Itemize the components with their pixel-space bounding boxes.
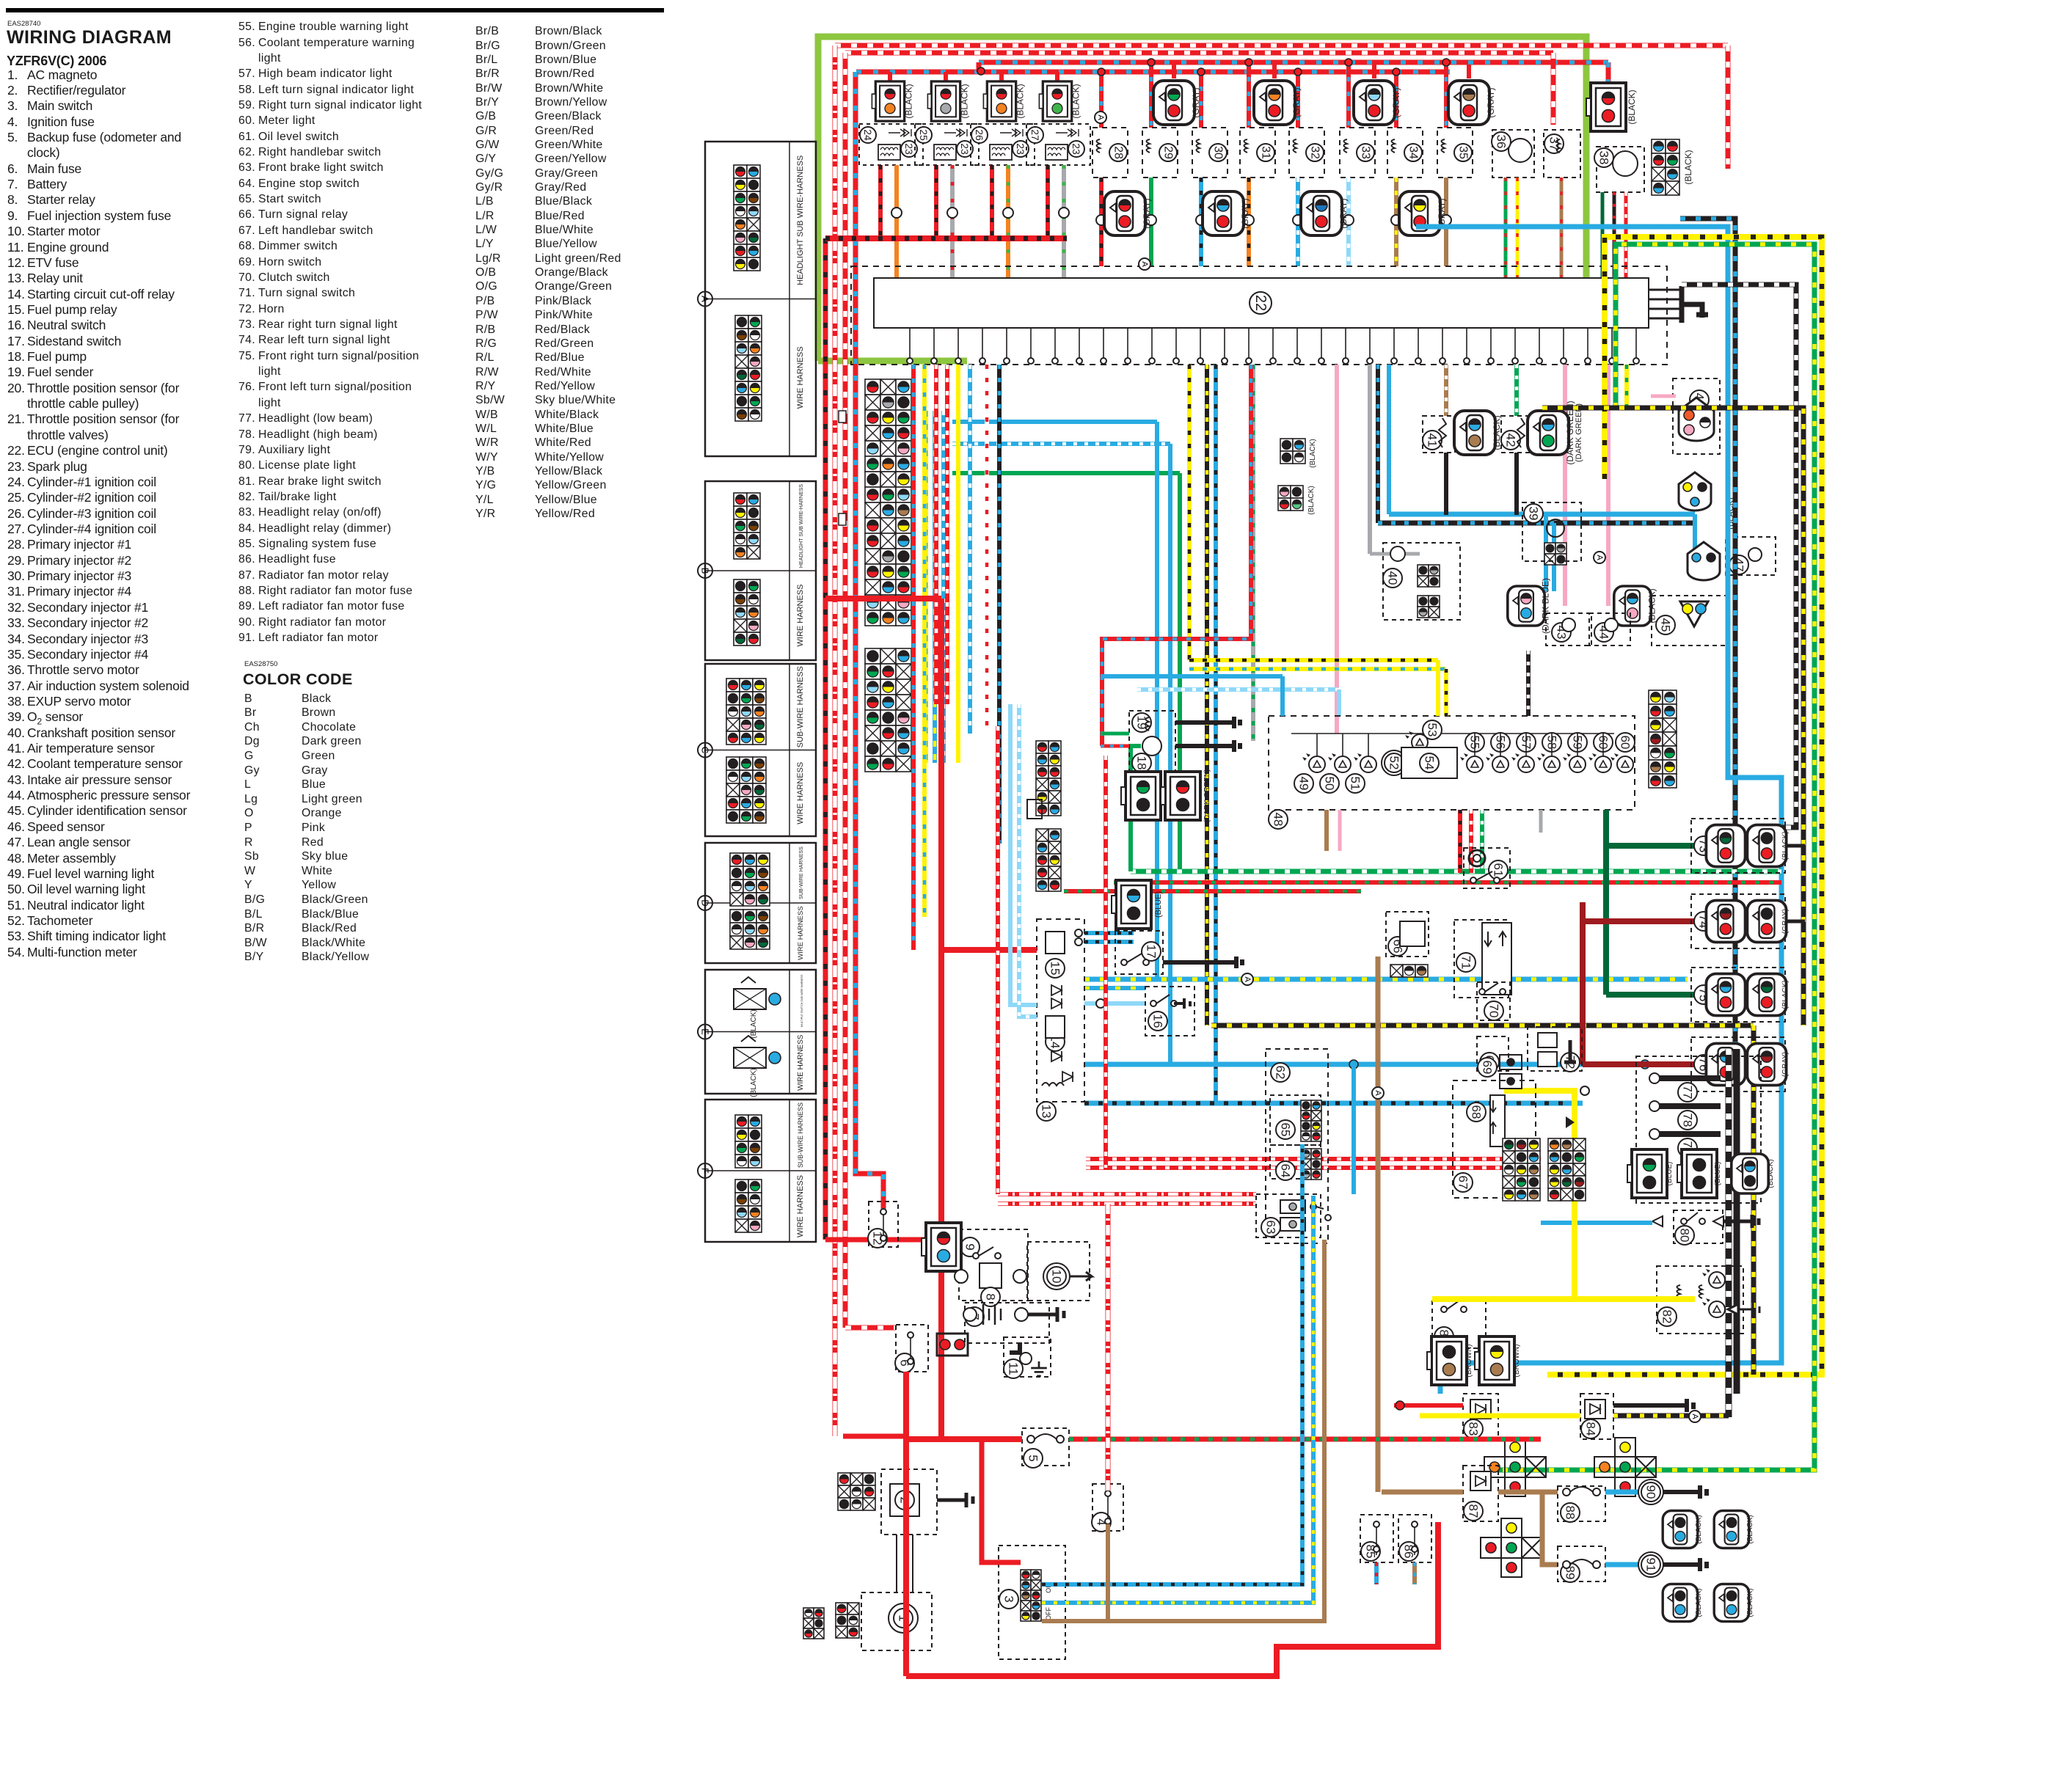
svg-text:(BLUE): (BLUE) — [1666, 1162, 1674, 1186]
svg-text:42: 42 — [1504, 434, 1518, 447]
svg-text:(BROWN): (BROWN) — [1465, 1345, 1473, 1378]
svg-text:(GRAY): (GRAY) — [1191, 87, 1201, 117]
svg-text:11: 11 — [1007, 1362, 1021, 1375]
svg-text:25: 25 — [918, 129, 930, 141]
svg-text:54: 54 — [1423, 756, 1437, 770]
svg-text:A: A — [700, 296, 711, 302]
svg-text:WIRE HARNESS: WIRE HARNESS — [797, 906, 805, 959]
svg-text:(GRAY): (GRAY) — [1486, 87, 1496, 117]
svg-text:23: 23 — [1015, 143, 1026, 155]
svg-text:68: 68 — [1470, 1105, 1484, 1119]
svg-text:8: 8 — [984, 1293, 998, 1300]
svg-text:(DARK GREEN): (DARK GREEN) — [1575, 403, 1583, 462]
svg-text:53: 53 — [1426, 723, 1440, 737]
svg-text:(BLACK): (BLACK) — [1307, 486, 1316, 514]
svg-text:16: 16 — [1151, 1014, 1165, 1028]
svg-text:84: 84 — [1584, 1422, 1598, 1436]
svg-text:(BLACK): (BLACK) — [904, 84, 914, 118]
svg-text:A: A — [1096, 114, 1105, 120]
svg-text:23: 23 — [959, 143, 971, 155]
svg-text:17: 17 — [1145, 945, 1159, 959]
svg-text:67: 67 — [1456, 1176, 1470, 1190]
svg-text:63: 63 — [1264, 1221, 1278, 1235]
svg-text:80: 80 — [1678, 1229, 1692, 1243]
svg-text:OFF: OFF — [1045, 1607, 1052, 1620]
svg-text:(GRAY): (GRAY) — [1391, 87, 1401, 117]
svg-text:A: A — [1595, 555, 1604, 560]
svg-text:(BLACK): (BLACK) — [1746, 1588, 1754, 1617]
svg-text:82: 82 — [1660, 1310, 1674, 1324]
svg-text:SUB-WIRE HARNESS: SUB-WIRE HARNESS — [798, 846, 804, 899]
svg-text:(DARK GREEN): (DARK GREEN) — [1203, 769, 1211, 823]
svg-text:38: 38 — [1597, 151, 1611, 165]
svg-text:C: C — [700, 747, 711, 753]
svg-text:(BLACK): (BLACK) — [1746, 1515, 1754, 1543]
svg-text:51: 51 — [1349, 777, 1363, 791]
svg-text:WIRE HARNESS: WIRE HARNESS — [797, 1034, 805, 1091]
svg-text:29: 29 — [1162, 146, 1175, 159]
svg-text:(DARK BLUE): (DARK BLUE) — [1541, 578, 1551, 634]
svg-text:62: 62 — [1274, 1066, 1288, 1080]
svg-text:HEADLIGHT SUB WIRE-HARNESS: HEADLIGHT SUB WIRE-HARNESS — [796, 156, 805, 285]
svg-text:(GRAY): (GRAY) — [1437, 198, 1447, 228]
svg-text:65: 65 — [1279, 1123, 1293, 1137]
svg-text:31: 31 — [1260, 146, 1272, 159]
svg-text:(GRAY): (GRAY) — [1291, 87, 1302, 117]
svg-text:(BLACK): (BLACK) — [1627, 89, 1637, 124]
svg-text:35: 35 — [1457, 146, 1470, 159]
svg-text:SUB-WIRE HARNESS: SUB-WIRE HARNESS — [797, 1102, 804, 1168]
svg-text:WIRE HARNESS: WIRE HARNESS — [796, 762, 805, 824]
svg-text:69: 69 — [1481, 1061, 1495, 1075]
svg-text:41: 41 — [1426, 434, 1440, 447]
svg-text:39: 39 — [1527, 507, 1541, 521]
svg-text:50: 50 — [1323, 777, 1337, 791]
svg-text:(BLACK): (BLACK) — [1695, 1515, 1703, 1543]
svg-text:70: 70 — [1487, 1004, 1501, 1018]
svg-text:22: 22 — [1252, 295, 1269, 311]
svg-text:27: 27 — [1029, 129, 1041, 141]
svg-text:13: 13 — [1040, 1105, 1054, 1119]
svg-text:77: 77 — [1681, 1086, 1695, 1100]
svg-text:40: 40 — [1386, 571, 1400, 585]
svg-text:32: 32 — [1309, 146, 1321, 159]
svg-text:(BLUE): (BLUE) — [1154, 891, 1163, 918]
svg-text:49: 49 — [1297, 777, 1311, 791]
svg-text:(BLACK): (BLACK) — [1071, 84, 1081, 118]
svg-text:26: 26 — [974, 129, 985, 141]
svg-text:A: A — [1690, 1414, 1699, 1419]
svg-text:34: 34 — [1407, 146, 1420, 159]
svg-text:B: B — [700, 568, 711, 574]
svg-text:(GRAY): (GRAY) — [1338, 198, 1349, 228]
svg-text:3: 3 — [1002, 1595, 1016, 1602]
svg-text:(BROWN): (BROWN) — [1513, 1345, 1521, 1378]
svg-text:(BLUE): (BLUE) — [1714, 1162, 1722, 1186]
svg-text:HEADLIGHT SUB WIRE-HARNESS: HEADLIGHT SUB WIRE-HARNESS — [798, 484, 804, 568]
svg-text:30: 30 — [1212, 146, 1225, 159]
svg-text:64: 64 — [1279, 1164, 1293, 1178]
svg-text:E: E — [700, 1028, 711, 1035]
svg-text:36: 36 — [1495, 135, 1509, 149]
svg-text:A: A — [1374, 1090, 1382, 1096]
svg-text:5: 5 — [1026, 1455, 1040, 1461]
svg-text:87: 87 — [1467, 1504, 1481, 1518]
svg-text:91: 91 — [1644, 1558, 1658, 1572]
svg-text:WIRE HARNESS: WIRE HARNESS — [796, 346, 805, 409]
svg-text:10: 10 — [1050, 1270, 1064, 1284]
svg-text:(BLACK): (BLACK) — [1683, 150, 1693, 184]
svg-text:78: 78 — [1681, 1113, 1695, 1127]
svg-text:D: D — [700, 899, 711, 906]
svg-text:24: 24 — [862, 129, 874, 141]
svg-text:(BLACK): (BLACK) — [1309, 439, 1317, 467]
svg-text:(GRAY): (GRAY) — [1240, 198, 1250, 228]
svg-text:33: 33 — [1360, 146, 1372, 159]
svg-text:(BLACK): (BLACK) — [960, 84, 970, 118]
svg-text:(BLACK): (BLACK) — [750, 1068, 758, 1097]
svg-text:15: 15 — [1048, 962, 1062, 976]
svg-text:9: 9 — [963, 1243, 977, 1250]
svg-text:(BLACK): (BLACK) — [1781, 980, 1790, 1009]
svg-text:48: 48 — [1272, 813, 1285, 827]
svg-text:(BLACK): (BLACK) — [750, 1009, 758, 1038]
svg-text:(GRAY): (GRAY) — [1781, 1052, 1790, 1077]
svg-text:28: 28 — [1112, 146, 1125, 159]
svg-text:71: 71 — [1459, 956, 1473, 970]
svg-text:(BLACK): (BLACK) — [1015, 84, 1026, 118]
svg-text:23: 23 — [903, 143, 915, 155]
svg-text:18: 18 — [1135, 756, 1149, 770]
svg-text:MULTIPLE SWITCH SUB WIRE HARNE: MULTIPLE SWITCH SUB WIRE HARNESS — [800, 974, 803, 1027]
svg-text:52: 52 — [1387, 756, 1401, 770]
svg-text:(BLACK): (BLACK) — [1492, 415, 1502, 450]
svg-text:SUB-WIRE HARNESS: SUB-WIRE HARNESS — [796, 666, 805, 747]
svg-text:(GRAY): (GRAY) — [1142, 198, 1152, 228]
svg-text:A: A — [1140, 261, 1149, 267]
svg-text:60: 60 — [1619, 736, 1633, 750]
svg-text:23: 23 — [1070, 143, 1082, 155]
svg-text:A: A — [1243, 976, 1252, 982]
svg-text:WIRE HARNESS: WIRE HARNESS — [796, 1175, 805, 1237]
svg-text:90: 90 — [1644, 1485, 1658, 1499]
svg-text:F: F — [700, 1168, 711, 1174]
svg-text:83: 83 — [1467, 1422, 1481, 1436]
svg-text:WIRE HARNESS: WIRE HARNESS — [796, 585, 805, 647]
svg-text:61: 61 — [1492, 863, 1506, 877]
svg-text:45: 45 — [1659, 618, 1673, 632]
svg-text:(BLACK): (BLACK) — [1767, 1159, 1775, 1188]
svg-text:88: 88 — [1564, 1506, 1577, 1520]
svg-text:(BLACK): (BLACK) — [1695, 1588, 1703, 1617]
